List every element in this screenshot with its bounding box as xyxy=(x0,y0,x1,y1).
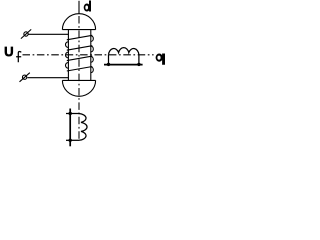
damper d bottom connector xyxy=(66,139,79,141)
field winding F turn 1 xyxy=(67,35,93,40)
junction dot xyxy=(137,63,140,66)
terminal upper xyxy=(24,32,28,36)
wire lower lead xyxy=(27,77,68,79)
field winding F turn 4 xyxy=(67,67,93,72)
field winding F right end loop 1 xyxy=(91,36,93,42)
label q xyxy=(156,54,165,65)
junction dot xyxy=(107,63,110,66)
terminal lower xyxy=(22,75,26,79)
field winding F left end loop 3 xyxy=(66,63,69,69)
damper q left connector xyxy=(108,55,110,65)
field winding F right end loop 4 xyxy=(91,67,93,73)
wire d-axis top lead xyxy=(78,1,80,14)
damper d short-circuit bar xyxy=(69,109,71,147)
field winding F left end loop 2 xyxy=(66,52,69,58)
damper winding d-axis coil xyxy=(79,114,87,141)
field winding F right end loop 3 xyxy=(91,57,93,63)
field winding F left end loop 1 xyxy=(66,42,69,48)
d-axis center line xyxy=(78,16,80,140)
wire upper lead xyxy=(28,33,68,35)
field winding F core left edge xyxy=(67,30,69,81)
junction dot xyxy=(69,139,72,142)
q-axis center line xyxy=(23,54,154,56)
field winding F turn 3 xyxy=(67,56,93,61)
damper q right connector xyxy=(138,55,140,65)
field winding F turn 2 xyxy=(67,46,93,51)
pole shoe bottom xyxy=(62,80,95,96)
pole shoe top xyxy=(62,14,95,30)
label Uf xyxy=(5,47,14,57)
damper q short-circuit bar xyxy=(104,64,143,66)
damper d top connector xyxy=(66,113,79,115)
field winding F core right edge xyxy=(90,30,92,81)
label d xyxy=(84,1,91,12)
junction dot xyxy=(69,112,72,115)
damper winding q-axis coil xyxy=(109,48,139,55)
field winding F right end loop 2 xyxy=(91,46,93,52)
